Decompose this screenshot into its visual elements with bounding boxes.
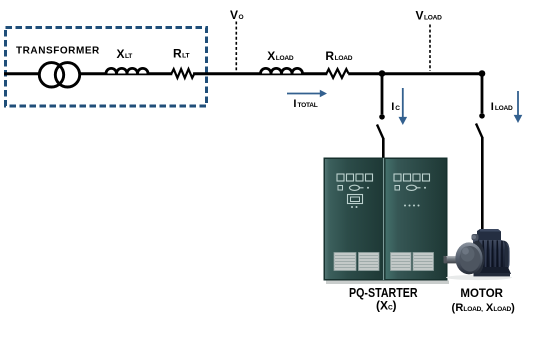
wire main horizontal bus middle: [193, 72, 327, 75]
node junction at motor branch: [479, 70, 486, 77]
PQ-STARTER cabinet: [324, 158, 450, 285]
inductor XLT: [106, 68, 148, 73]
motor front bell: [455, 242, 482, 274]
svg-text:(XC): (XC): [376, 299, 397, 313]
wire into motor: [481, 137, 484, 233]
motor M1: [444, 229, 513, 280]
node junction at starter branch: [379, 70, 386, 77]
arrow ITOTAL current direction: [287, 90, 327, 97]
motor gland: [472, 234, 479, 241]
transformer enclosure dashed box: [6, 28, 207, 107]
switch S2 contact dot: [479, 113, 485, 119]
motor fan cover: [498, 241, 510, 273]
cabinet divider: [383, 158, 385, 280]
vent grille 2: [359, 253, 380, 271]
cabinet left panel: [325, 159, 382, 279]
resistor RLT: [172, 69, 195, 78]
switch S1 blade: [377, 125, 384, 140]
svg-text:MOTOR: MOTOR: [460, 288, 503, 300]
left panel display: [348, 195, 363, 204]
motor feet: [474, 267, 511, 274]
left panel dots: [351, 206, 353, 208]
arrow Ic current direction: [399, 88, 408, 125]
arrow Iload current direction: [514, 91, 523, 123]
wire starter branch drop: [381, 74, 384, 115]
wire main horizontal bus right: [348, 72, 482, 75]
vent grille 3: [391, 253, 412, 271]
motor terminal box: [477, 229, 501, 245]
vent grille 4: [413, 253, 434, 271]
right panel indicator squares: [394, 174, 430, 181]
vent grille 1: [334, 253, 356, 271]
wire main horizontal bus left: [4, 72, 172, 75]
switch S1 contact dot: [379, 114, 385, 120]
cabinet shadow: [326, 281, 449, 285]
right panel control icons: [395, 185, 426, 190]
resistor RLOAD: [327, 69, 349, 78]
switch S2 blade: [476, 124, 483, 139]
inductor XLOAD: [261, 68, 303, 73]
motor bell ring: [470, 241, 485, 275]
transformer T1: [39, 60, 79, 90]
wire motor branch drop: [481, 74, 484, 114]
motor shadow: [446, 275, 512, 280]
left panel control icons: [338, 185, 369, 190]
left panel indicator squares: [337, 174, 373, 181]
cabinet right panel: [386, 159, 447, 279]
cabinet outer frame: [324, 158, 448, 281]
motor shaft: [444, 256, 458, 263]
motor fins: [479, 240, 503, 272]
node Vload dashed riser: [429, 25, 431, 72]
right panel dots row: [404, 205, 420, 207]
motor body: [473, 240, 505, 273]
wire into starter cabinet: [382, 138, 385, 158]
node Vo dashed riser: [235, 22, 237, 73]
svg-text:TRANSFORMER: TRANSFORMER: [16, 46, 100, 57]
